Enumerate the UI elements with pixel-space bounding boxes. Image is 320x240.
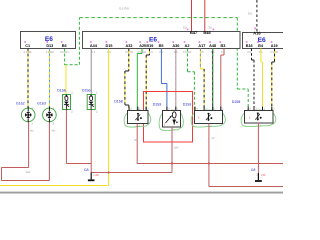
wire yellow bottom rail [0, 185, 109, 187]
actuator D158 (4th) [245, 111, 274, 124]
svg-text:0.5: 0.5 [247, 51, 251, 54]
wire A17 yellow/gray jog [199, 49, 201, 69]
wire B47 red to top edge [191, 0, 193, 32]
svg-text:B47: B47 [190, 30, 198, 35]
pin mark B47 [187, 29, 189, 31]
wire A44 gray to D156 right [90, 49, 92, 95]
wire D15 yellow long [108, 49, 110, 186]
divider line [0, 192, 283, 194]
wire C1 black/yellow to lamp G162 [27, 49, 29, 109]
svg-text:D13: D13 [46, 44, 53, 48]
D156 right ground wire [90, 110, 92, 173]
pin mark D15 [106, 41, 108, 43]
svg-text:0.5 GN: 0.5 GN [60, 51, 69, 54]
svg-text:A48: A48 [209, 44, 216, 48]
wire junction yellow from green [65, 65, 67, 95]
D156 left ground wire [65, 110, 67, 164]
svg-text:0.5: 0.5 [183, 26, 188, 30]
svg-text:C1: C1 [25, 44, 30, 48]
ground G8 right [257, 173, 259, 180]
wire green dashed long horizontal [79, 17, 237, 19]
ground rail to G8 left [91, 172, 172, 174]
pin stubs comp1 [128, 107, 130, 111]
injector symbol [172, 112, 176, 118]
pin mark D13 [46, 41, 48, 43]
svg-text:9w: 9w [52, 129, 55, 132]
svg-text:D159: D159 [183, 103, 192, 107]
svg-text:0.5: 0.5 [248, 12, 253, 16]
svg-text:E6: E6 [258, 37, 266, 44]
svg-text:B3: B3 [220, 44, 225, 48]
wire B3 red jog [223, 49, 225, 56]
svg-text:A16: A16 [253, 31, 261, 36]
svg-text:0.5: 0.5 [92, 51, 96, 54]
pin stubs comp4 [247, 107, 249, 111]
pin mark A44 [90, 41, 92, 43]
wire B16 black dashed [251, 49, 253, 61]
svg-text:D156: D156 [57, 88, 66, 92]
actuator D159 (2nd) [163, 111, 181, 128]
actuator D158 (4th) cloud [241, 110, 276, 126]
comp1 bottom wire red [136, 124, 138, 164]
pin mark B46 [213, 29, 215, 31]
wire green down at right [236, 18, 238, 89]
lamp G163 ground wire [48, 123, 50, 181]
wire green up between boxes [78, 18, 80, 65]
pin mark B5 [158, 41, 160, 43]
pin mark B16 [246, 41, 248, 43]
svg-text:A30: A30 [172, 44, 179, 48]
bottom right rail [209, 186, 283, 188]
diode D156 [87, 95, 95, 110]
svg-text:A32: A32 [126, 44, 133, 48]
svg-text:A17: A17 [198, 44, 205, 48]
svg-text:A19: A19 [271, 44, 278, 48]
svg-text:1Gn: 1Gn [174, 147, 179, 150]
svg-text:x30: x30 [261, 173, 266, 177]
svg-text:B16: B16 [246, 44, 253, 48]
lamp G162 [21, 108, 35, 122]
wire A19 yellow/black jog [274, 49, 276, 63]
wire A48 green/black [212, 49, 214, 111]
actuator D159 (2nd in red box) cloud [159, 110, 183, 130]
diode D156 [63, 95, 71, 110]
svg-text:D15: D15 [106, 44, 113, 48]
actuator D159 (3rd) [195, 111, 223, 124]
wire green horizontal jog [65, 64, 80, 66]
svg-text:0.5: 0.5 [221, 51, 225, 54]
pin mark A48 [209, 41, 211, 43]
pin mark B4 [257, 41, 259, 43]
ground G8 left [90, 173, 92, 180]
wire green jog right [237, 88, 248, 90]
svg-text:E6: E6 [149, 37, 157, 44]
wire D13 blue/yellow to lamp G163 [49, 49, 51, 109]
wire A25 green jog [141, 49, 143, 54]
pin mark A17 [199, 41, 201, 43]
wire A16 black dashed to top edge [256, 0, 258, 33]
svg-text:G8: G8 [251, 168, 256, 172]
svg-text:x30: x30 [94, 173, 99, 177]
svg-text:9w: 9w [30, 129, 33, 132]
svg-text:30w: 30w [26, 171, 31, 174]
connector box E6 (left) [21, 32, 76, 49]
junction dots [171, 162, 173, 164]
svg-text:B6: B6 [62, 44, 67, 48]
svg-text:G163: G163 [37, 101, 46, 105]
pin mark A30 [173, 41, 175, 43]
wire B46 red to top edge [204, 0, 206, 32]
svg-text:A2: A2 [185, 44, 190, 48]
svg-text:A44: A44 [90, 44, 98, 48]
wire A32 yellow/black jogged [128, 49, 130, 72]
pin mark B3 [220, 41, 222, 43]
svg-text:B19: B19 [146, 44, 153, 48]
highlight red box [144, 92, 193, 143]
pin stubs comp3 [194, 107, 196, 111]
svg-text:D158: D158 [114, 100, 123, 104]
svg-text:35: 35 [208, 26, 212, 30]
wire A10 gray/pink [175, 49, 177, 111]
svg-text:D156: D156 [82, 88, 91, 92]
actuator D158 (1st) [128, 111, 149, 124]
actuator D159 (3rd) cloud [191, 110, 225, 127]
wire green into comp4 pin1 [247, 89, 249, 110]
pin stubs comp2 [166, 107, 168, 111]
pin mark B19 [147, 41, 149, 43]
svg-text:B5: B5 [159, 44, 164, 48]
rail A to right edge [137, 163, 283, 165]
svg-text:G162: G162 [16, 101, 25, 105]
svg-text:D159: D159 [153, 103, 162, 107]
pin mark A25 [139, 41, 141, 43]
pin mark A16 [254, 28, 256, 30]
svg-text:G8: G8 [84, 168, 89, 172]
wire A2 green dashed jog [187, 49, 189, 72]
pin mark A2 [184, 41, 186, 43]
pin mark A32 [126, 41, 128, 43]
svg-text:0.5: 0.5 [107, 51, 111, 54]
wire B4 yellow [260, 49, 262, 63]
svg-text:A25: A25 [139, 44, 146, 48]
svg-text:E6: E6 [45, 36, 53, 43]
connector box E6 (middle) [83, 32, 241, 49]
pin mark B6 [61, 41, 63, 43]
comp4 bottom wire red [257, 123, 259, 173]
wire B6 green: down from pin [64, 49, 66, 66]
pin mark C1 [24, 41, 26, 43]
connector box E6 (right) [243, 33, 288, 49]
pin mark A19 [271, 41, 273, 43]
lamp G162 ground wire [28, 123, 30, 168]
wire B19 yellow/black [149, 49, 151, 56]
wire B5 blue jog [160, 49, 162, 84]
svg-text:D158: D158 [232, 100, 241, 104]
actuator D158 (1st) cloud [124, 110, 151, 127]
comp3 bottom wire red [208, 124, 210, 187]
lamp G163 [43, 108, 57, 122]
svg-text:0.5 GN: 0.5 GN [119, 7, 129, 11]
comp2 bottom wire red [171, 127, 173, 173]
svg-text:B46: B46 [203, 30, 211, 35]
